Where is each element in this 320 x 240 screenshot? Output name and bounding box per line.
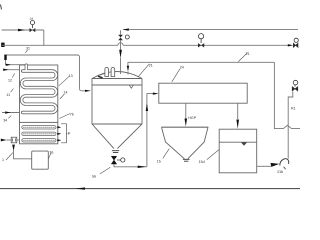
label 14 leader <box>60 94 65 99</box>
valve V5 at right edge <box>292 80 298 91</box>
reactor cone <box>92 124 142 149</box>
wire gas line y62 <box>128 61 275 63</box>
hopper vessel <box>162 127 209 159</box>
label 1 leader <box>6 153 13 160</box>
valve V3 on header <box>198 34 204 48</box>
tank outlet wire <box>257 165 271 167</box>
hopper tip hatches <box>183 159 190 161</box>
wire drop from V1 to main header <box>43 30 45 45</box>
edge mark top-left <box>1 5 2 10</box>
label 34 leader <box>8 116 11 119</box>
svg-text:P: P <box>68 131 71 136</box>
fan box <box>32 151 49 169</box>
bracket for tubes <box>61 124 66 143</box>
square fitting on tube inlet <box>11 137 17 143</box>
coil inlet arrow <box>5 111 11 113</box>
label 76 leader <box>48 153 51 159</box>
wire top-right long line <box>123 29 298 31</box>
wire flue to fan box <box>14 150 32 159</box>
bottom return line <box>0 188 300 190</box>
small stub on dome left <box>98 76 103 78</box>
wire dryer to tank <box>237 103 239 119</box>
cone tip hatches <box>112 151 119 153</box>
wire riser up to dryer <box>147 94 153 167</box>
svg-text:11: 11 <box>6 93 10 97</box>
svg-text:24: 24 <box>180 65 184 69</box>
svg-text:HGP: HGP <box>188 116 196 120</box>
wire main header y45 <box>2 44 289 46</box>
tank outlet arrow <box>271 163 280 167</box>
leader to y62 line <box>238 53 247 62</box>
discharge arrow right <box>138 166 147 168</box>
valve V6 circle <box>121 158 125 162</box>
label 11 leader <box>11 89 14 93</box>
valve V2 vertical <box>118 35 129 40</box>
wire burner line 1 <box>6 60 27 65</box>
bold terminal on y55 line <box>4 55 6 60</box>
feed arrow into reactor dome <box>119 50 122 58</box>
burner2 arrow <box>3 69 8 71</box>
wire furnace inlet header y55 <box>5 55 79 89</box>
riser up arrow <box>146 103 148 111</box>
tube 1 arrow <box>57 126 61 128</box>
svg-text:34: 34 <box>3 119 7 123</box>
wire burner line 2 <box>3 69 20 71</box>
label 7b leader <box>59 114 70 119</box>
wire into reactor left <box>80 89 86 91</box>
tube 2 <box>22 132 56 135</box>
svg-text:15d: 15d <box>199 160 205 164</box>
reactor body <box>92 72 142 125</box>
label 24 leader <box>172 69 180 82</box>
reactor nozzle 1 <box>105 67 109 76</box>
label 15 leader <box>163 149 170 159</box>
wire second dome feed <box>127 62 129 74</box>
furnace tube box <box>20 122 58 143</box>
tube 1 <box>22 126 56 129</box>
label 13 leader <box>59 76 69 86</box>
wire return line y128.6 with jump <box>274 62 300 128</box>
arrow into dryer <box>153 93 159 95</box>
svg-text:56: 56 <box>92 175 96 179</box>
svg-text:31: 31 <box>26 47 30 51</box>
node start blob on header <box>1 43 4 47</box>
furnace coil box <box>20 65 58 122</box>
svg-text:21b: 21b <box>277 170 283 174</box>
wire top-left feed line <box>2 29 44 31</box>
wire dryer to hopper <box>185 103 187 119</box>
label 12 leader <box>12 73 15 77</box>
header end arrow <box>288 44 293 46</box>
label 21 leader <box>138 64 150 77</box>
tank feed arrow <box>236 120 239 129</box>
level marker triangle <box>129 85 133 88</box>
svg-text:12: 12 <box>8 78 12 82</box>
bottom discharge valve (filled) <box>111 156 116 164</box>
label 31 leader <box>25 50 27 53</box>
svg-text:R1: R1 <box>291 107 296 111</box>
wire tube inlet y140 <box>6 139 19 141</box>
wire reactor feed vertical <box>120 30 122 74</box>
bottom line arrow (points left) <box>76 187 86 189</box>
pump hook <box>280 159 289 166</box>
label 56 leader <box>100 167 111 174</box>
svg-text:ca: ca <box>30 16 34 20</box>
hopper top edge <box>162 126 209 128</box>
svg-text:14: 14 <box>64 90 68 94</box>
label 15d leader <box>207 150 219 160</box>
wire hop over reactor feed <box>118 43 123 46</box>
wire right riser from pump <box>288 92 293 159</box>
tank level line <box>219 141 257 143</box>
second feed arrow <box>127 66 129 72</box>
liquid level line <box>92 84 142 86</box>
reactor inlet arrow <box>85 90 91 92</box>
svg-text:15: 15 <box>157 159 161 163</box>
product tank <box>219 129 257 173</box>
tube 3 arrow <box>57 139 61 141</box>
svg-text:76: 76 <box>49 150 53 154</box>
flue outlet arrow below tube box <box>12 145 15 151</box>
svg-text:13: 13 <box>69 74 73 78</box>
svg-text:7b: 7b <box>70 112 74 116</box>
hopper feed arrow <box>185 119 188 127</box>
tube inlet arrow <box>1 139 7 142</box>
reactor nozzle 2 <box>111 67 115 76</box>
svg-text:1: 1 <box>2 158 4 162</box>
tube 3 <box>22 139 56 142</box>
furnace coil serpentine <box>22 65 57 112</box>
wire coil inlet y112 <box>2 112 20 114</box>
valve V4 at right edge <box>293 38 298 47</box>
tank level marker <box>241 142 247 145</box>
flow arrow A1 <box>18 29 25 32</box>
wire discharge to riser <box>114 164 147 167</box>
tube 2 arrow <box>57 133 61 135</box>
dryer rectangle <box>159 83 247 103</box>
arrow into reactor feed (points left) <box>123 28 129 30</box>
valve V1 <box>30 21 36 33</box>
burner1 arrow <box>6 64 11 66</box>
